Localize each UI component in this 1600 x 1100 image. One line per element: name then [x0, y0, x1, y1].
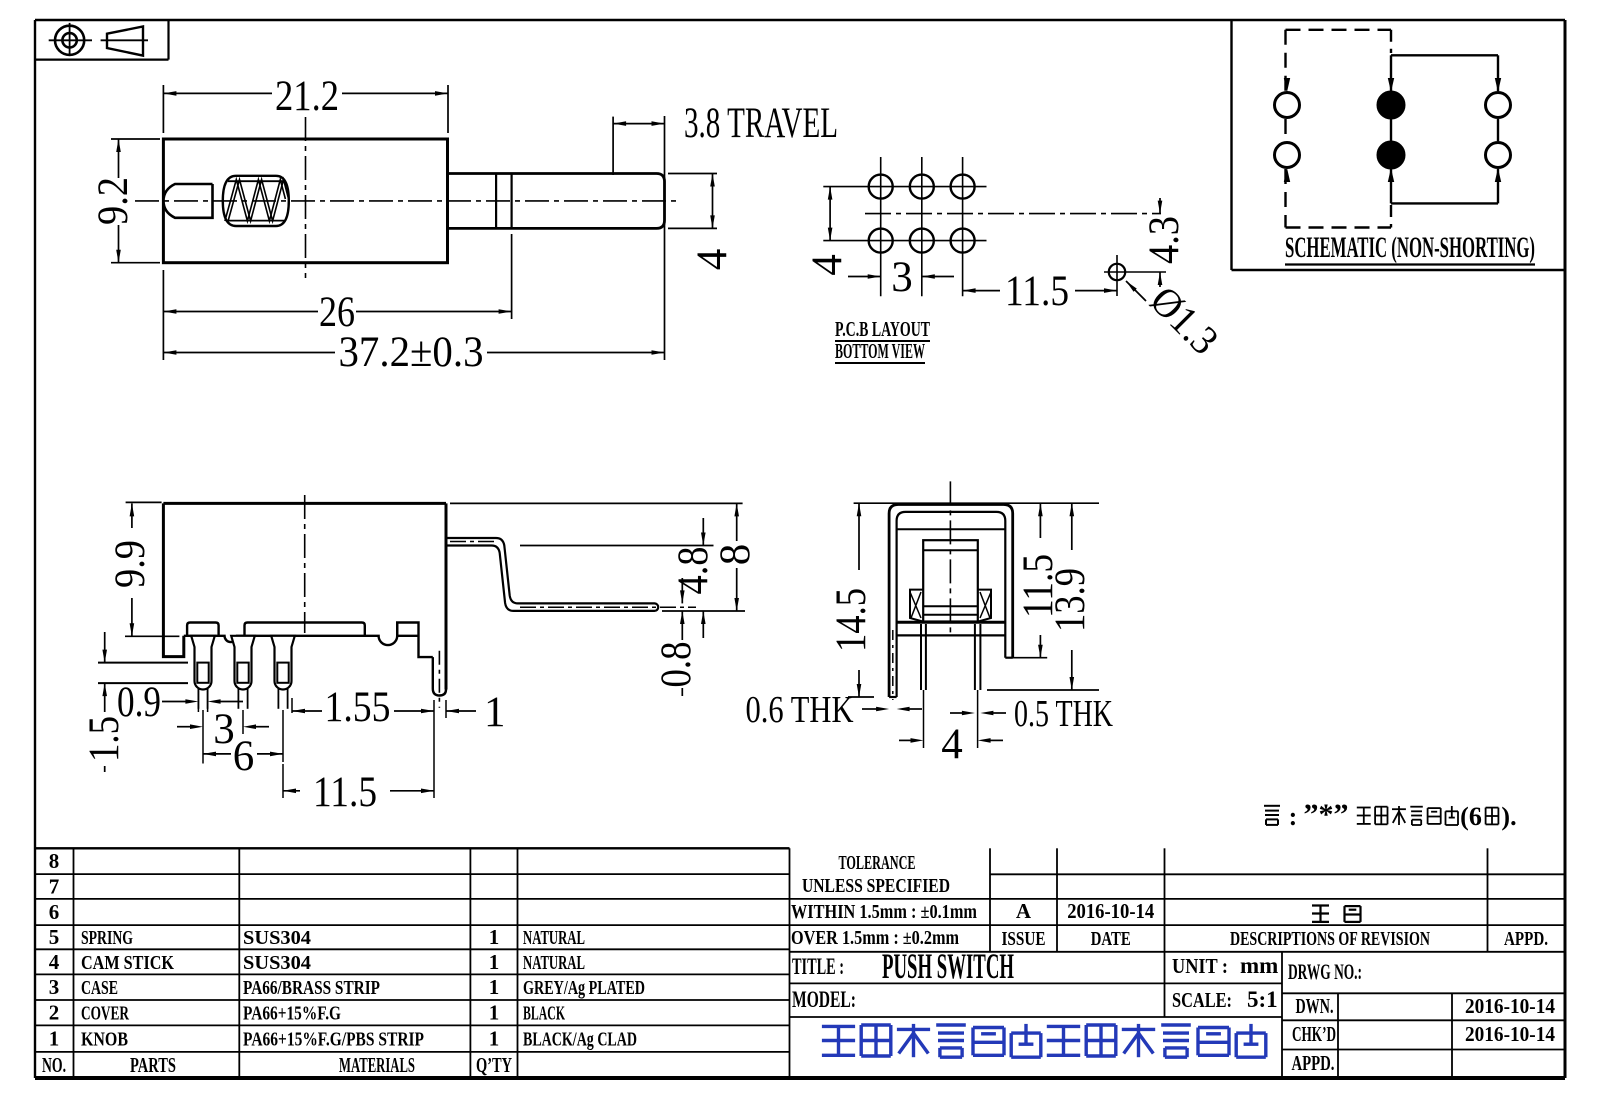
svg-text::: : — [1289, 802, 1298, 831]
end view: knob stem — [923, 540, 978, 621]
side view: lever strip centerline — [450, 542, 696, 608]
svg-text:TITLE :: TITLE : — [792, 954, 844, 979]
svg-text:SUS304: SUS304 — [243, 927, 311, 949]
title block grid — [790, 848, 1566, 1077]
svg-text:PUSH SWITCH: PUSH SWITCH — [882, 946, 1014, 986]
end view: pin bottom extension line — [848, 658, 1099, 697]
svg-text:).: ). — [1501, 802, 1516, 831]
svg-text:3: 3 — [213, 706, 235, 753]
dimension 1 (peg width) — [446, 689, 506, 736]
svg-text:BLACK/Ag CLAD: BLACK/Ag CLAD — [523, 1029, 637, 1051]
dimension 8 — [450, 503, 759, 611]
svg-text:DRWG NO.:: DRWG NO.: — [1288, 959, 1362, 984]
svg-text:SUS304: SUS304 — [243, 952, 311, 974]
svg-text:PA66/BRASS STRIP: PA66/BRASS STRIP — [243, 977, 380, 999]
svg-text:21.2: 21.2 — [275, 73, 339, 120]
svg-text:0.8: 0.8 — [653, 642, 700, 688]
svg-text:NATURAL: NATURAL — [523, 952, 585, 974]
svg-text:(6: (6 — [1460, 802, 1482, 831]
title block: drawing info — [1288, 959, 1555, 1075]
svg-text:1.55: 1.55 — [325, 684, 391, 731]
svg-text:3: 3 — [891, 254, 913, 301]
projection symbol: circle view — [49, 23, 92, 56]
dimension 0.5 THK — [950, 693, 1113, 735]
top view: horizontal centerline — [135, 200, 680, 202]
svg-text:”*”: ”*” — [1304, 798, 1349, 831]
dimension 3 (pin pitch) — [177, 706, 269, 753]
pcb dimension 11.5 — [963, 268, 1117, 315]
schematic terminal circles — [1275, 92, 1511, 169]
end view: left plate centerline — [892, 630, 894, 700]
svg-text:2016-10-14: 2016-10-14 — [1465, 1022, 1555, 1046]
svg-text:11.5: 11.5 — [313, 769, 377, 816]
svg-text:1: 1 — [484, 689, 506, 736]
schematic dashed rectangle — [1286, 30, 1392, 228]
svg-text:UNLESS SPECIFIED: UNLESS SPECIFIED — [802, 875, 950, 897]
parts table text — [42, 849, 645, 1077]
company name (chinese, blue) — [822, 1024, 1266, 1057]
svg-text:KNOB: KNOB — [81, 1029, 128, 1051]
dimension 26 — [163, 234, 511, 360]
dimension 4 (pin pitch end view) — [899, 690, 1003, 768]
side view: ridge block 2 — [245, 623, 365, 636]
svg-text:2016-10-14: 2016-10-14 — [1465, 994, 1555, 1018]
svg-text:COVER: COVER — [81, 1003, 129, 1025]
dimension 1.5 — [81, 632, 128, 772]
svg-text:1: 1 — [49, 1027, 60, 1051]
svg-text:4.3: 4.3 — [1141, 216, 1188, 264]
svg-text:2: 2 — [49, 1001, 60, 1025]
svg-text:4: 4 — [49, 950, 60, 974]
svg-text:7: 7 — [49, 875, 60, 899]
note: key dimension remark — [1264, 798, 1517, 831]
dimension 6 — [203, 710, 283, 780]
svg-text:CASE: CASE — [81, 977, 118, 999]
svg-text:4: 4 — [804, 254, 851, 276]
dimension 4 (shaft height) — [668, 174, 736, 271]
svg-text:4: 4 — [941, 721, 963, 768]
svg-text:NATURAL: NATURAL — [523, 927, 585, 949]
svg-text:13.9: 13.9 — [1047, 568, 1094, 632]
end view: vertical centerline — [949, 481, 951, 635]
svg-text:SPRING: SPRING — [81, 927, 133, 949]
side view: vertical centerline — [304, 495, 306, 633]
svg-text:8: 8 — [49, 849, 60, 873]
svg-text:Q’TY: Q’TY — [476, 1053, 512, 1077]
svg-text:mm: mm — [1240, 953, 1278, 978]
side view: case bottom edge with notches — [184, 636, 419, 645]
pcb dimension diameter 1.3 leader — [1126, 277, 1228, 363]
svg-text:MODEL:: MODEL: — [792, 987, 856, 1012]
svg-text:1: 1 — [489, 975, 500, 999]
svg-text:APPD.: APPD. — [1292, 1051, 1335, 1075]
svg-text:TOLERANCE: TOLERANCE — [839, 852, 916, 874]
side view: terminal strip tail (left) — [98, 663, 188, 684]
svg-text:5: 5 — [49, 925, 60, 949]
schematic box outline — [1232, 20, 1566, 270]
parts table grid — [35, 848, 790, 1077]
svg-text:37.2±0.3: 37.2±0.3 — [339, 329, 484, 376]
svg-text:NO.: NO. — [42, 1053, 66, 1077]
dimension 3.8 TRAVEL — [613, 100, 838, 175]
svg-text:BLACK: BLACK — [523, 1003, 565, 1025]
top view: spring barrel — [223, 176, 289, 226]
end view: cover bracket — [889, 505, 1013, 698]
title block: tolerance cell — [791, 852, 977, 949]
svg-text:2016-10-14: 2016-10-14 — [1067, 899, 1154, 923]
svg-text:SCALE:: SCALE: — [1172, 988, 1232, 1012]
end view: base plate — [897, 622, 1006, 635]
side view: bent lever strip — [446, 538, 658, 611]
svg-text:BOTTOM VIEW: BOTTOM VIEW — [835, 339, 925, 363]
svg-text:A: A — [1016, 899, 1032, 923]
pcb dimension 4.3 — [1141, 198, 1188, 287]
svg-text:3.8 TRAVEL: 3.8 TRAVEL — [684, 100, 838, 147]
schematic arrows — [1284, 78, 1501, 182]
svg-text:0.5 THK: 0.5 THK — [1014, 693, 1113, 735]
pcb layout: small mounting hole — [1104, 255, 1166, 296]
end view: right pin — [975, 624, 981, 690]
svg-text:1: 1 — [489, 950, 500, 974]
svg-text:1: 1 — [489, 1001, 500, 1025]
dimension 21.2 — [163, 73, 448, 133]
dimension 1.55 — [292, 684, 434, 731]
top view: vertical centerline of body — [305, 117, 307, 278]
end view: middle pin — [921, 624, 926, 690]
svg-text:5:1: 5:1 — [1247, 987, 1278, 1012]
svg-text:UNIT :: UNIT : — [1172, 954, 1228, 978]
projection symbol box — [35, 20, 169, 60]
svg-text:WITHIN 1.5mm : ±0.1mm: WITHIN 1.5mm : ±0.1mm — [791, 901, 977, 923]
dimension 11.5 (side view) — [283, 700, 434, 816]
side view: terminal pin 1 — [191, 636, 215, 709]
svg-text:CAM STICK: CAM STICK — [81, 952, 174, 974]
dimension 0.8 — [653, 578, 700, 696]
schematic solid rectangle — [1391, 55, 1498, 203]
pcb layout: long horizontal centerline — [865, 213, 1161, 215]
svg-text:0.9: 0.9 — [117, 679, 161, 726]
top view: shaft — [448, 174, 665, 229]
label P.C.B LAYOUT / BOTTOM VIEW — [835, 317, 930, 363]
top view: switch body outline — [163, 139, 447, 263]
end view: cover inner shelf line — [897, 528, 1006, 530]
pcb layout: six holes with crosshairs — [823, 157, 986, 296]
svg-text:DESCRIPTIONS OF REVISION: DESCRIPTIONS OF REVISION — [1230, 928, 1430, 950]
end view: top extension line — [854, 502, 1099, 504]
svg-text:CHK’D: CHK’D — [1292, 1022, 1336, 1046]
dimension 0.6 THK — [746, 689, 923, 731]
dimension 9.2 — [90, 139, 160, 263]
title block: revision row — [1002, 899, 1549, 950]
svg-text:APPD.: APPD. — [1504, 928, 1548, 950]
top view: knob plunger — [164, 184, 213, 218]
dimension 14.5 — [828, 503, 875, 697]
side view: mounting peg — [433, 651, 446, 708]
svg-text:8: 8 — [712, 544, 759, 566]
svg-text:1: 1 — [489, 925, 500, 949]
dimension 13.9 — [1047, 503, 1094, 690]
dimension 0.9 — [117, 679, 243, 726]
dimension 37.2±0.3 — [163, 116, 664, 376]
title block: title and model — [792, 946, 1278, 1012]
dimension 9.9 — [107, 502, 179, 636]
svg-text:9.9: 9.9 — [107, 540, 154, 588]
svg-text:SCHEMATIC (NON-SHORTING): SCHEMATIC (NON-SHORTING) — [1285, 231, 1535, 264]
svg-text:PA66+15%F.G: PA66+15%F.G — [243, 1003, 341, 1025]
svg-text:3: 3 — [49, 975, 60, 999]
side view: ridge block 1 — [187, 623, 219, 636]
svg-text:PA66+15%F.G/PBS STRIP: PA66+15%F.G/PBS STRIP — [243, 1029, 424, 1051]
svg-text:DWN.: DWN. — [1296, 994, 1334, 1018]
svg-text:6: 6 — [233, 733, 255, 780]
svg-text:11.5: 11.5 — [1005, 268, 1069, 315]
svg-text:1: 1 — [489, 1027, 500, 1051]
side view: terminal pin 2 — [231, 636, 255, 709]
end view: spring wings — [910, 590, 991, 622]
side view: ridge block 3 and skirt — [397, 623, 433, 658]
svg-text:P.C.B LAYOUT: P.C.B LAYOUT — [835, 317, 930, 341]
pcb dimension 4 (row pitch) — [804, 187, 851, 276]
svg-text:6: 6 — [49, 900, 60, 924]
svg-text:Ø1.3: Ø1.3 — [1142, 277, 1228, 363]
svg-text:PARTS: PARTS — [130, 1053, 176, 1077]
svg-text:GREY/Ag PLATED: GREY/Ag PLATED — [523, 977, 645, 999]
side view: case outline — [163, 503, 446, 689]
svg-text:4: 4 — [689, 249, 736, 271]
svg-text:DATE: DATE — [1091, 928, 1131, 950]
dimension 11.5 (end view) — [1015, 503, 1062, 658]
pcb dimension 3 (column pitch) — [848, 254, 954, 301]
side view: terminal pin 3 — [271, 636, 295, 709]
svg-text:0.6 THK: 0.6 THK — [746, 689, 854, 731]
label SCHEMATIC (NON-SHORTING) — [1285, 231, 1535, 265]
svg-text:MATERIALS: MATERIALS — [339, 1053, 415, 1077]
svg-text:14.5: 14.5 — [828, 588, 875, 652]
svg-text:4.8: 4.8 — [670, 547, 717, 595]
dimension 4.8 — [520, 518, 745, 638]
svg-text:9.2: 9.2 — [90, 177, 137, 225]
top view: spring zigzag — [225, 180, 289, 222]
projection symbol: cone view — [101, 27, 148, 56]
